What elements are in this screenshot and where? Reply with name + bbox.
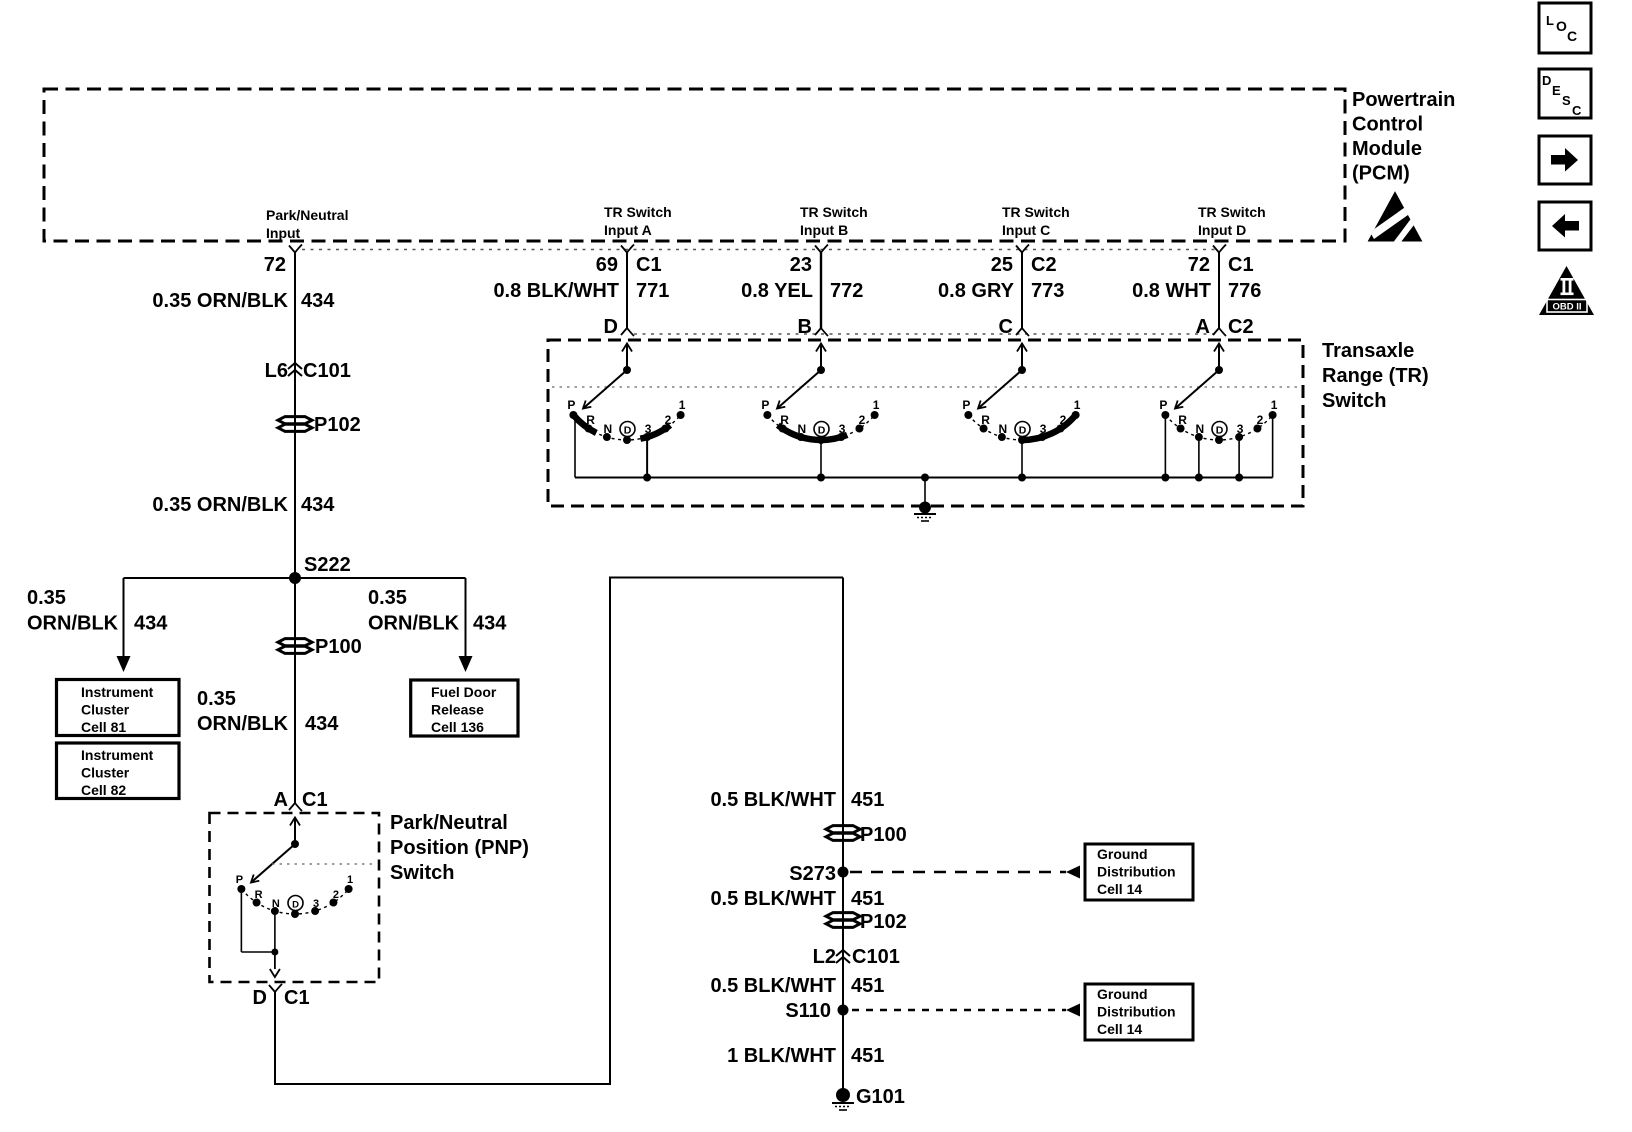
svg-text:Input: Input <box>266 225 301 241</box>
TR switch pin D fork <box>621 328 634 336</box>
PNP wire from contact N <box>274 911 276 952</box>
TR switch B contact 3 <box>837 422 846 441</box>
PCM pin label TR Switch Input B <box>800 204 868 238</box>
svg-text:P100: P100 <box>860 824 907 846</box>
wire 772 YEL from PCM pin 23 <box>820 253 822 329</box>
svg-text:Distribution: Distribution <box>1097 1004 1176 1020</box>
svg-text:Position (PNP): Position (PNP) <box>390 837 529 859</box>
svg-text:N: N <box>999 422 1008 436</box>
svg-text:C2: C2 <box>1031 254 1057 276</box>
bus junction at x=647 <box>643 474 651 482</box>
bus junction at x=1022 <box>1018 474 1026 482</box>
PCM pin 72 connector fork <box>289 245 302 253</box>
svg-text:0.35: 0.35 <box>368 587 407 609</box>
svg-text:434: 434 <box>301 290 335 312</box>
reference box Ground Distribution Cell 14 (S273) <box>1085 844 1193 900</box>
svg-text:Cell 81: Cell 81 <box>81 719 126 735</box>
svg-text:23: 23 <box>790 254 812 276</box>
bus junction at x=1198 <box>1195 474 1203 482</box>
TR switch B wiper pivot <box>817 366 825 374</box>
bus junction at x=925 <box>921 474 929 482</box>
svg-text:D: D <box>1542 73 1551 88</box>
svg-text:N: N <box>604 422 613 436</box>
svg-text:S273: S273 <box>789 863 836 885</box>
svg-text:R: R <box>255 889 263 901</box>
PNP pin D C1 fork <box>253 984 310 1009</box>
svg-text:Instrument: Instrument <box>81 747 154 763</box>
pin number 23 <box>790 254 812 276</box>
TR switch pin A fork <box>1213 328 1226 336</box>
svg-text:Cell 14: Cell 14 <box>1097 881 1142 897</box>
svg-text:P102: P102 <box>860 911 907 933</box>
svg-text:O: O <box>1556 18 1567 34</box>
PNP switch dashed outline box <box>210 813 380 982</box>
PCM pin label TR Switch Input A <box>604 204 672 238</box>
svg-text:0.35: 0.35 <box>27 587 66 609</box>
TR switch dashed outline box <box>548 340 1303 506</box>
ESD sensitive device triangle symbol <box>1368 191 1423 246</box>
wire label 0.5 BLK/WHT 451 (1) <box>710 789 884 811</box>
svg-text:TR Switch: TR Switch <box>604 204 672 220</box>
svg-text:TR Switch: TR Switch <box>800 204 868 220</box>
svg-text:ORN/BLK: ORN/BLK <box>368 613 460 635</box>
svg-text:Cell 82: Cell 82 <box>81 782 126 798</box>
TR switch D wire from N to bus <box>1198 437 1200 477</box>
wire label 0.35 ORN/BLK 434 (right branch) <box>368 587 507 635</box>
arrow to Fuel Door Release <box>459 656 473 672</box>
dashed link S273 to Ground Distribution <box>850 866 1080 879</box>
TR switch pin B fork <box>815 328 828 336</box>
svg-text:D: D <box>818 424 826 436</box>
TR switch D contact arc <box>1165 415 1272 440</box>
svg-text:Release: Release <box>431 702 484 718</box>
bus junction at x=1165 <box>1161 474 1169 482</box>
TR switch A contact 3 <box>643 422 652 441</box>
svg-text:R: R <box>586 413 595 427</box>
svg-text:0.5 BLK/WHT: 0.5 BLK/WHT <box>710 789 836 811</box>
TR switch D contact 1 <box>1269 398 1278 419</box>
PCM pin 69 connector fork <box>621 245 634 253</box>
svg-text:Input D: Input D <box>1198 222 1246 238</box>
svg-text:C1: C1 <box>284 987 310 1009</box>
svg-text:69: 69 <box>596 254 618 276</box>
wire label 0.35 ORN/BLK 434 <box>152 290 335 312</box>
TR switch D contact R <box>1177 413 1188 433</box>
TR switch A wire from 3 to bus <box>646 437 648 477</box>
in-line connector C101 pin L2 <box>813 946 900 968</box>
TR switch ground node <box>919 502 931 514</box>
svg-text:D: D <box>1216 424 1224 436</box>
TR switch A contact R <box>585 413 596 433</box>
TR switch A closed contact segment 1 <box>573 415 596 433</box>
wire 451 route from PNP pin D <box>275 578 843 1085</box>
TR switch D contact D <box>1212 422 1227 445</box>
wire label 0.8 YEL 772 <box>741 280 863 302</box>
svg-text:S222: S222 <box>304 554 351 576</box>
svg-text:0.5 BLK/WHT: 0.5 BLK/WHT <box>710 888 836 910</box>
PNP switch contact D <box>288 896 303 919</box>
svg-text:1: 1 <box>1271 398 1278 412</box>
svg-text:Powertrain: Powertrain <box>1352 89 1455 111</box>
svg-text:451: 451 <box>851 888 884 910</box>
svg-text:1: 1 <box>347 874 353 886</box>
TR switch D wire from P to bus <box>1164 415 1166 478</box>
svg-text:0.8 BLK/WHT: 0.8 BLK/WHT <box>493 280 619 302</box>
svg-text:C: C <box>1567 28 1577 44</box>
svg-text:72: 72 <box>1188 254 1210 276</box>
PNP junction node <box>271 949 278 956</box>
svg-text:25: 25 <box>991 254 1013 276</box>
splice S222 <box>289 554 351 584</box>
svg-text:B: B <box>798 316 812 338</box>
svg-text:451: 451 <box>851 789 884 811</box>
svg-text:2: 2 <box>1060 413 1067 427</box>
PCM pin 72 (C1) connector fork <box>1213 245 1226 253</box>
icon button forward arrow <box>1539 136 1591 184</box>
svg-text:L6: L6 <box>265 360 288 382</box>
svg-text:0.8 GRY: 0.8 GRY <box>938 280 1015 302</box>
svg-text:A: A <box>274 789 288 811</box>
TR switch D contact P <box>1159 398 1169 419</box>
icon button DESC <box>1539 69 1591 118</box>
wire 776 WHT from PCM pin 72 <box>1218 253 1220 329</box>
TR switch D wire from 1 to bus <box>1272 415 1274 478</box>
svg-text:434: 434 <box>301 494 335 516</box>
TR switch A wiper pivot <box>623 366 631 374</box>
svg-text:Module: Module <box>1352 138 1422 160</box>
svg-text:Fuel Door: Fuel Door <box>431 684 497 700</box>
svg-text:3: 3 <box>1237 422 1244 436</box>
PCM pin label Park/Neutral Input <box>266 207 348 241</box>
svg-text:C1: C1 <box>636 254 662 276</box>
TR switch A contact N <box>603 422 612 441</box>
wire 434 ORN/BLK from PCM pin 72 <box>294 253 296 579</box>
wire label 0.8 BLK/WHT 771 <box>493 280 669 302</box>
svg-text:D: D <box>1019 424 1027 436</box>
wire label 0.5 BLK/WHT 451 (3) <box>710 975 884 997</box>
pin letter D <box>604 316 618 338</box>
TR switch C contact D <box>1015 422 1030 445</box>
svg-text:R: R <box>1178 413 1187 427</box>
TR switch A contact 2 <box>661 413 671 433</box>
svg-text:0.5 BLK/WHT: 0.5 BLK/WHT <box>710 975 836 997</box>
pin letter B <box>798 316 812 338</box>
svg-text:C: C <box>999 316 1013 338</box>
PNP switch wiper pivot <box>291 840 299 848</box>
TR switch D wiper arm <box>1175 370 1219 409</box>
TR switch A contact arc <box>573 415 680 440</box>
TR switch C contact arc <box>968 415 1075 440</box>
svg-text:TR Switch: TR Switch <box>1002 204 1070 220</box>
connector P102 on wire 451 <box>826 911 907 933</box>
svg-text:Input B: Input B <box>800 222 848 238</box>
wire 773 GRY from PCM pin 25 <box>1021 253 1023 329</box>
svg-text:434: 434 <box>473 613 507 635</box>
PNP switch contact P <box>236 874 246 893</box>
svg-text:Distribution: Distribution <box>1097 864 1176 880</box>
connector C1/C2 dotted line at PCM <box>302 249 1219 251</box>
svg-text:451: 451 <box>851 1045 884 1067</box>
svg-text:Cluster: Cluster <box>81 765 130 781</box>
PCM pin 23 connector fork <box>815 245 828 253</box>
wire label 0.8 WHT 776 <box>1132 280 1261 302</box>
svg-text:Switch: Switch <box>390 862 454 884</box>
svg-text:2: 2 <box>665 413 672 427</box>
svg-text:A: A <box>1196 316 1210 338</box>
svg-text:D: D <box>253 987 267 1009</box>
svg-text:Input A: Input A <box>604 222 652 238</box>
TR switch B contact D <box>814 422 829 445</box>
wire label 0.35 ORN/BLK 434 (below P102) <box>152 494 335 516</box>
bus junction at x=821 <box>817 474 825 482</box>
svg-text:ORN/BLK: ORN/BLK <box>197 713 289 735</box>
connector dotted line at TR switch <box>634 333 1219 335</box>
TR switch D contact 2 <box>1253 413 1263 433</box>
TR switch C wiper pivot <box>1018 366 1026 374</box>
svg-text:C101: C101 <box>303 360 351 382</box>
svg-text:P: P <box>1159 398 1167 412</box>
reference box Ground Distribution Cell 14 (S110) <box>1085 984 1193 1040</box>
svg-text:R: R <box>780 413 789 427</box>
TR gang dotted line <box>552 386 1299 388</box>
svg-text:434: 434 <box>134 613 168 635</box>
svg-text:1: 1 <box>873 398 880 412</box>
connector P102 on wire 434 <box>278 414 361 436</box>
svg-text:OBD II: OBD II <box>1552 302 1581 313</box>
svg-text:(PCM): (PCM) <box>1352 163 1410 185</box>
PCM pin label TR Switch Input C <box>1002 204 1070 238</box>
wire 434 from S222 to PNP switch <box>294 578 296 803</box>
wire label 0.8 GRY 773 <box>938 280 1064 302</box>
svg-text:3: 3 <box>839 422 846 436</box>
TR switch C wire from D to bus <box>1021 440 1023 478</box>
ground G101 <box>832 1086 905 1110</box>
TR switch A wire from P to bus <box>574 415 576 478</box>
connector P100 on wire 434 <box>278 636 362 658</box>
svg-text:Cell 136: Cell 136 <box>431 719 484 735</box>
svg-text:P: P <box>761 398 769 412</box>
svg-text:1: 1 <box>679 398 686 412</box>
connector P100 on wire 451 <box>826 824 907 846</box>
TR switch D wire from 3 to bus <box>1238 437 1240 477</box>
svg-text:N: N <box>272 898 280 910</box>
svg-text:G101: G101 <box>856 1086 905 1108</box>
PNP wire from contact P <box>241 889 275 952</box>
TR switch B contact R <box>779 413 790 433</box>
svg-text:Instrument: Instrument <box>81 684 154 700</box>
svg-text:S: S <box>1562 93 1571 108</box>
destination box Instrument Cluster Cell 82 <box>57 743 180 799</box>
TR switch B contact N <box>797 422 806 441</box>
svg-text:Switch: Switch <box>1322 390 1386 412</box>
TR switch A contact 1 <box>677 398 686 419</box>
TR switch B contact 1 <box>871 398 880 419</box>
svg-text:S110: S110 <box>785 1000 831 1022</box>
svg-text:0.35 ORN/BLK: 0.35 ORN/BLK <box>152 494 288 516</box>
svg-text:P102: P102 <box>314 414 361 436</box>
TR switch ground symbol <box>914 514 936 521</box>
splice S273 <box>789 863 848 885</box>
svg-text:2: 2 <box>333 889 339 901</box>
svg-text:2: 2 <box>1257 413 1264 427</box>
svg-text:0.35 ORN/BLK: 0.35 ORN/BLK <box>152 290 288 312</box>
svg-text:ORN/BLK: ORN/BLK <box>27 613 119 635</box>
svg-text:434: 434 <box>305 713 339 735</box>
TR switch B wire from D to bus <box>820 440 822 478</box>
PCM pin label TR Switch Input D <box>1198 204 1266 238</box>
TR switch B wiper arrow to pin <box>816 344 826 371</box>
svg-text:C2: C2 <box>1228 316 1254 338</box>
PCM module dashed outline box <box>44 89 1345 241</box>
TR switch B contact 2 <box>855 413 865 433</box>
TR switch common bus wire <box>575 477 1273 479</box>
svg-text:C101: C101 <box>852 946 900 968</box>
svg-text:N: N <box>798 422 807 436</box>
destination box Instrument Cluster Cell 81 <box>57 680 180 736</box>
svg-text:D: D <box>604 316 618 338</box>
svg-text:0.8 WHT: 0.8 WHT <box>1132 280 1211 302</box>
bus junction at x=1239 <box>1235 474 1243 482</box>
svg-text:773: 773 <box>1031 280 1064 302</box>
TR switch C contact P <box>962 398 972 419</box>
svg-text:C: C <box>1572 103 1582 118</box>
label Powertrain Control Module (PCM) <box>1352 89 1455 185</box>
svg-text:L2: L2 <box>813 946 836 968</box>
TR switch C contact 2 <box>1056 413 1066 433</box>
svg-text:C1: C1 <box>302 789 328 811</box>
TR switch A contact P <box>567 398 577 419</box>
PNP switch contact R <box>253 889 263 907</box>
TR switch A wiper arrow to pin <box>622 344 632 371</box>
svg-text:776: 776 <box>1228 280 1261 302</box>
svg-text:R: R <box>981 413 990 427</box>
svg-text:D: D <box>292 899 299 910</box>
label Transaxle Range (TR) Switch <box>1322 340 1429 412</box>
svg-text:3: 3 <box>313 898 319 910</box>
destination box Fuel Door Release Cell 136 <box>411 680 518 736</box>
svg-text:0.8 YEL: 0.8 YEL <box>741 280 813 302</box>
svg-text:L: L <box>1546 13 1554 28</box>
svg-text:P: P <box>236 874 243 886</box>
pin number 25 C2 <box>991 254 1057 276</box>
svg-text:Park/Neutral: Park/Neutral <box>266 207 348 223</box>
svg-text:C1: C1 <box>1228 254 1254 276</box>
svg-text:P100: P100 <box>315 636 362 658</box>
svg-text:1 BLK/WHT: 1 BLK/WHT <box>727 1045 836 1067</box>
TR switch D wiper arrow to pin <box>1214 344 1224 371</box>
svg-text:Ground: Ground <box>1097 846 1148 862</box>
TR switch B contact P <box>761 398 771 419</box>
icon OBD II triangle <box>1539 266 1594 315</box>
wire S222 branch left <box>124 578 296 657</box>
PNP pin A C1 fork <box>274 789 328 811</box>
pin number 69 C1 <box>596 254 662 276</box>
TR switch A wiper arm <box>583 370 627 409</box>
in-line connector C101 pin L6 <box>265 360 351 382</box>
svg-text:Park/Neutral: Park/Neutral <box>390 812 508 834</box>
TR switch C contact N <box>998 422 1007 441</box>
pin number 72 C1 <box>1188 254 1254 276</box>
svg-text:Control: Control <box>1352 114 1423 136</box>
pin number 72 <box>264 254 286 276</box>
TR switch C wiper arm <box>978 370 1022 409</box>
TR switch C wiper arrow to pin <box>1017 344 1027 371</box>
svg-text:Input C: Input C <box>1002 222 1050 238</box>
PNP switch contact N <box>271 898 280 915</box>
wire label 1 BLK/WHT 451 <box>727 1045 884 1067</box>
svg-text:E: E <box>1552 83 1561 98</box>
wire label 0.35 ORN/BLK 434 (above PNP) <box>197 688 339 735</box>
dashed link S110 to Ground Distribution <box>852 1004 1080 1017</box>
svg-text:3: 3 <box>1040 422 1047 436</box>
wire 451 BLK/WHT down to G101 <box>842 578 844 1096</box>
svg-text:451: 451 <box>851 975 884 997</box>
TR switch C contact R <box>980 413 991 433</box>
svg-text:P: P <box>567 398 575 412</box>
svg-text:P: P <box>962 398 970 412</box>
PNP output wire with arrow <box>270 952 280 977</box>
label Park/Neutral Position (PNP) Switch <box>390 812 529 884</box>
PNP switch wiper arrow to pin <box>290 818 300 845</box>
svg-text:72: 72 <box>264 254 286 276</box>
TR switch D wiper pivot <box>1215 366 1223 374</box>
icon button back arrow <box>1539 202 1591 250</box>
TR switch B wiper arm <box>777 370 821 409</box>
svg-text:Range (TR): Range (TR) <box>1322 365 1429 387</box>
svg-text:Cell 14: Cell 14 <box>1097 1021 1142 1037</box>
splice S110 <box>785 1000 848 1022</box>
TR switch B contact arc <box>767 415 874 440</box>
TR switch ground stub <box>924 478 926 504</box>
svg-text:1: 1 <box>1074 398 1081 412</box>
wire label 0.35 ORN/BLK 434 (left branch) <box>27 587 168 635</box>
PCM pin 25 connector fork <box>1016 245 1029 253</box>
TR switch A closed contact segment 2 <box>640 425 670 439</box>
TR switch C contact 3 <box>1038 422 1047 441</box>
PNP switch contact 1 <box>345 874 354 893</box>
TR switch B closed contact segment 1 <box>778 425 847 440</box>
PNP gang dotted line <box>272 863 377 865</box>
svg-text:772: 772 <box>830 280 863 302</box>
wire S222 branch right <box>295 578 466 657</box>
svg-text:Ground: Ground <box>1097 986 1148 1002</box>
icon button LOC <box>1539 3 1591 53</box>
svg-text:N: N <box>1196 422 1205 436</box>
PNP switch contact 2 <box>329 889 339 907</box>
svg-text:771: 771 <box>636 280 669 302</box>
TR switch D contact 3 <box>1235 422 1244 441</box>
TR switch D contact N <box>1195 422 1204 441</box>
svg-text:3: 3 <box>645 422 652 436</box>
TR switch C contact 1 <box>1072 398 1081 419</box>
svg-text:2: 2 <box>859 413 866 427</box>
svg-text:0.35: 0.35 <box>197 688 236 710</box>
PNP switch contact 3 <box>311 898 319 915</box>
TR switch A contact D <box>620 422 635 445</box>
svg-text:TR Switch: TR Switch <box>1198 204 1266 220</box>
svg-text:Cluster: Cluster <box>81 702 130 718</box>
PNP switch wiper arm <box>251 844 295 883</box>
TR switch pin C fork <box>1016 328 1029 336</box>
pin letter A C2 <box>1196 316 1254 338</box>
arrow to Instrument Cluster <box>117 656 131 672</box>
pin letter C <box>999 316 1013 338</box>
wire 771 BLK/WHT from PCM pin 69 <box>626 253 628 329</box>
TR switch C closed contact segment 1 <box>1020 413 1078 440</box>
wire label 0.5 BLK/WHT 451 (2) <box>710 888 884 910</box>
PNP switch contact arc <box>241 889 348 914</box>
svg-text:D: D <box>624 424 632 436</box>
